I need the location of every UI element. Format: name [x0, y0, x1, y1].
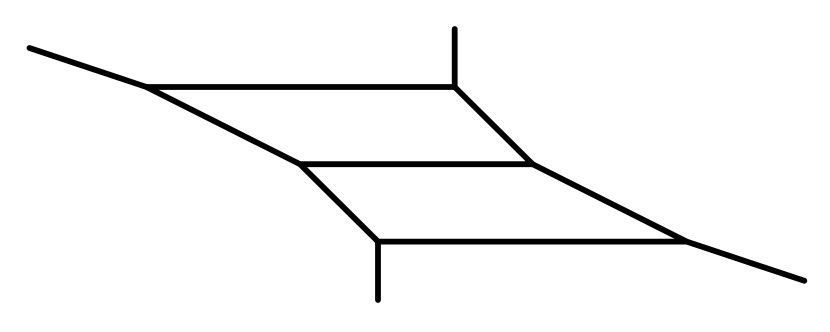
external leg upper-left (slope 1/3) — [30, 48, 147, 87]
wire diagonal V1-V3 (slope 1/2) — [147, 87, 301, 164]
external leg vertical bottom at V5 — [375, 242, 381, 300]
wire middle horizontal V3-V4 — [300, 161, 533, 167]
wire bottom horizontal V5-V6 — [378, 239, 687, 245]
wire diagonal V3-V5 (slope 1) — [300, 164, 378, 241]
external leg vertical top at V2 — [452, 29, 458, 87]
external leg lower-right (slope 1/3) — [687, 242, 805, 281]
wire diagonal V2-V4 (slope 1) — [455, 87, 533, 164]
wire diagonal V4-V6 (slope 1/2) — [533, 164, 687, 241]
wire top horizontal V1-V2 — [147, 84, 455, 90]
